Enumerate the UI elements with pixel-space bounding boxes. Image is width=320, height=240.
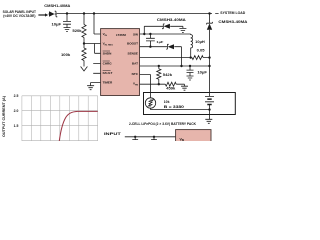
svg-text:2.0: 2.0 <box>14 109 19 113</box>
svg-text:100k: 100k <box>61 53 70 57</box>
svg-text:459k: 459k <box>166 87 175 91</box>
svg-text:CHRG: CHRG <box>103 61 113 65</box>
svg-text:LT3652: LT3652 <box>116 33 126 37</box>
svg-text:10µF: 10µF <box>197 71 207 75</box>
svg-text:CMSH3-40MA: CMSH3-40MA <box>157 18 186 22</box>
svg-text:INPUT: INPUT <box>104 131 122 136</box>
svg-text:SW: SW <box>133 32 138 36</box>
svg-text:2-CELL LiFePO4 (2 × 3.6V) BATT: 2-CELL LiFePO4 (2 × 3.6V) BATTERY PACK <box>129 122 196 126</box>
svg-text:FAULT: FAULT <box>103 71 113 75</box>
svg-text:SENSE: SENSE <box>128 52 139 56</box>
svg-text:NTC: NTC <box>132 72 139 76</box>
svg-text:CMSH3-40MA: CMSH3-40MA <box>218 20 247 24</box>
svg-text:BOOST: BOOST <box>127 42 138 46</box>
svg-text:SHDN: SHDN <box>103 51 113 55</box>
svg-text:(<40V DC VOLTAGE): (<40V DC VOLTAGE) <box>3 13 36 18</box>
svg-text:CMSH1-40MA: CMSH1-40MA <box>44 4 70 8</box>
svg-text:TIMER: TIMER <box>103 81 113 85</box>
svg-text:OUTPUT CURRENT (A): OUTPUT CURRENT (A) <box>2 96 6 137</box>
svg-text:SYSTEM LOAD: SYSTEM LOAD <box>220 10 245 15</box>
svg-text:10k: 10k <box>164 100 170 104</box>
svg-text:520k: 520k <box>72 29 81 33</box>
svg-text:10µF: 10µF <box>52 22 62 26</box>
svg-text:1µF: 1µF <box>156 40 163 44</box>
svg-text:BAT: BAT <box>132 61 138 65</box>
svg-text:2.5: 2.5 <box>14 94 19 98</box>
svg-text:1.5: 1.5 <box>14 124 19 128</box>
svg-text:B = 3380: B = 3380 <box>164 105 184 109</box>
svg-text:0.05: 0.05 <box>197 49 205 53</box>
svg-text:10µH: 10µH <box>195 40 205 44</box>
svg-text:542k: 542k <box>163 73 172 77</box>
